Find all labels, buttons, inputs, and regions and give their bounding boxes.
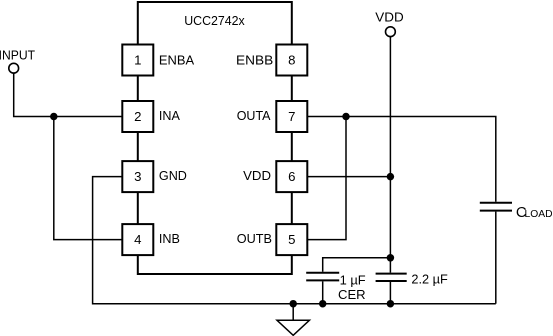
svg-text:1 µF: 1 µF [340, 272, 366, 287]
svg-text:2: 2 [134, 109, 141, 124]
svg-text:INPUT: INPUT [0, 47, 35, 62]
svg-text:OUTB: OUTB [237, 231, 272, 246]
svg-text:3: 3 [134, 169, 141, 184]
svg-text:5: 5 [288, 232, 295, 247]
svg-text:GND: GND [159, 168, 187, 183]
svg-text:VDD: VDD [243, 168, 271, 183]
svg-text:INA: INA [159, 108, 180, 123]
svg-text:LOAD: LOAD [525, 208, 553, 220]
svg-text:ENBB: ENBB [236, 53, 273, 68]
svg-text:7: 7 [288, 109, 295, 124]
svg-text:VDD: VDD [375, 9, 403, 24]
svg-text:1: 1 [134, 52, 141, 67]
svg-text:8: 8 [288, 52, 295, 67]
svg-text:OUTA: OUTA [237, 108, 271, 123]
svg-text:4: 4 [134, 232, 141, 247]
svg-text:UCC2742x: UCC2742x [184, 13, 245, 28]
svg-text:CER: CER [338, 287, 366, 302]
svg-text:2.2 µF: 2.2 µF [411, 271, 447, 286]
svg-text:ENBA: ENBA [159, 53, 194, 68]
svg-text:INB: INB [159, 231, 180, 246]
svg-text:6: 6 [288, 169, 295, 184]
